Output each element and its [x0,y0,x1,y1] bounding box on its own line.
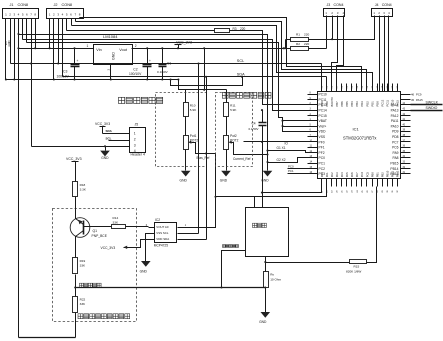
svg-text:PD9: PD9 [392,130,399,134]
svg-text:PD3: PD3 [360,101,364,107]
svg-text:J5: J5 [135,123,139,127]
svg-text:PB10: PB10 [385,170,389,177]
svg-text:PF1: PF1 [319,146,325,150]
svg-text:PC10: PC10 [319,93,327,97]
svg-text:CON8: CON8 [62,3,73,7]
svg-text:VOUT A0: VOUT A0 [156,225,169,229]
svg-text:PNP_BCE: PNP_BCE [92,234,108,238]
svg-text:SDA: SDA [106,129,113,133]
svg-text:PD8: PD8 [392,135,399,139]
svg-text:J2: J2 [54,3,58,7]
svg-text:Q1: Q1 [93,229,98,233]
svg-text:Vref+: Vref+ [319,124,327,128]
svg-text:5.9K: 5.9K [190,108,197,112]
svg-text:PC9: PC9 [416,93,422,97]
svg-text:CON4: CON4 [334,3,344,7]
svg-text:3: 3 [134,144,136,148]
svg-text:33K: 33K [113,220,119,224]
svg-text:PA9: PA9 [393,151,399,155]
svg-text:PC10: PC10 [391,99,395,106]
svg-text:J1: J1 [10,3,14,7]
svg-text:2: 2 [135,44,137,48]
svg-text:PA10: PA10 [391,124,399,128]
svg-text:PA4: PA4 [340,172,344,177]
svg-text:VSS: VSS [319,135,326,139]
svg-text:SWDIO: SWDIO [426,106,438,110]
svg-text:GND: GND [101,156,109,160]
svg-text:100/10V: 100/10V [57,74,70,78]
svg-text:+: + [77,59,79,63]
svg-text:PC5: PC5 [365,172,369,178]
svg-text:GND: GND [140,270,148,274]
svg-text:SCL: SCL [106,137,112,141]
svg-text:PC15: PC15 [319,114,327,118]
svg-text:C3: C3 [63,69,67,73]
svg-text:PA15: PA15 [416,98,423,102]
svg-text:Header 4: Header 4 [131,152,145,156]
svg-text:J3: J3 [327,3,331,7]
svg-text:PB9: PB9 [320,101,324,107]
svg-text:GND: GND [111,52,115,60]
svg-text:PB6: PB6 [340,101,344,107]
svg-text:R2: R2 [296,42,300,46]
svg-text:PC1: PC1 [288,169,294,173]
svg-text:Rs: Rs [270,273,274,277]
svg-text:45: 45 [411,98,415,102]
svg-text:PA15: PA15 [396,100,400,107]
svg-text:R18: R18 [80,183,86,187]
svg-text:VB: VB [4,41,8,45]
svg-text:G2 X2: G2 X2 [277,158,286,162]
svg-text:C1: C1 [167,61,171,65]
svg-text:PD2: PD2 [365,101,369,107]
svg-text:R3: R3 [233,27,237,31]
svg-text:33K: 33K [80,302,86,306]
svg-text:SCL: SCL [237,59,244,63]
svg-text:PC0: PC0 [319,156,326,160]
svg-text:820K 1/8W: 820K 1/8W [346,270,361,274]
svg-text:IC1: IC1 [353,127,360,132]
svg-text:10 Ohm: 10 Ohm [270,278,281,282]
svg-text:PA1: PA1 [325,172,329,177]
svg-text:VCC_3V3: VCC_3V3 [101,246,116,250]
svg-text:C2: C2 [133,68,137,72]
svg-text:Pot2: Pot2 [230,134,237,138]
svg-text:PC4: PC4 [360,172,364,178]
svg-text:46: 46 [411,93,415,97]
svg-text:PC7: PC7 [392,140,399,144]
svg-text:PA6: PA6 [350,172,354,177]
svg-text:PB2: PB2 [380,172,384,178]
svg-text:G1 X1: G1 X1 [277,146,286,150]
svg-text:33K: 33K [80,264,86,268]
svg-text:R15: R15 [354,265,360,269]
svg-text:+: + [149,59,151,63]
svg-text:PC1: PC1 [319,162,326,166]
svg-text:PB15: PB15 [390,162,398,166]
svg-text:STM32G071RBTx: STM32G071RBTx [343,136,376,141]
svg-text:PA0: PA0 [320,172,324,177]
svg-text:BOOT0: BOOT0 [330,97,334,107]
svg-text:VDD SDA: VDD SDA [156,237,169,241]
svg-text:100/10V: 100/10V [129,72,142,76]
svg-text:PA12: PA12 [391,114,399,118]
svg-text:PC12: PC12 [380,99,384,106]
svg-text:CON8: CON8 [18,3,29,7]
svg-text:220: 220 [304,42,309,46]
svg-text:C4: C4 [252,122,256,126]
svg-text:PC0: PC0 [288,164,294,168]
svg-text:IC2: IC2 [155,218,160,222]
svg-text:220: 220 [304,33,309,37]
svg-text:SDA: SDA [237,72,245,76]
svg-text:PA5: PA5 [345,172,349,177]
svg-text:PB5: PB5 [345,101,349,107]
svg-text:2: 2 [134,138,136,142]
svg-text:GND: GND [220,178,228,182]
svg-text:CON4: CON4 [382,3,392,7]
svg-text:VCC_3V3: VCC_3V3 [95,122,110,126]
svg-text:1: 1 [134,132,136,136]
svg-text:PF2: PF2 [319,151,325,155]
svg-text:Pot1: Pot1 [190,134,197,138]
svg-text:VCC_3V3: VCC_3V3 [176,40,192,44]
svg-text:MCP4725: MCP4725 [154,244,168,248]
svg-text:PD1: PD1 [370,101,374,107]
svg-text:R10: R10 [190,103,196,107]
svg-text:PB7: PB7 [335,101,339,107]
svg-text:PB0: PB0 [370,172,374,178]
svg-text:IO: IO [285,142,289,146]
svg-text:GND: GND [180,178,188,182]
svg-text:PB1: PB1 [375,172,379,178]
svg-text:Vin: Vin [96,48,101,52]
svg-text:PD0: PD0 [375,101,379,107]
svg-text:3.3K: 3.3K [80,187,87,191]
svg-text:PA8: PA8 [393,156,399,160]
svg-text:VSS SCL: VSS SCL [156,231,169,235]
svg-text:VBAT: VBAT [319,119,327,123]
svg-text:PA3: PA3 [335,172,339,177]
svg-text:VDD: VDD [319,130,327,134]
svg-text:0.1/50V: 0.1/50V [249,127,259,131]
svg-text:PB8: PB8 [325,101,329,107]
svg-text:PC11: PC11 [385,99,389,106]
svg-text:PA13: PA13 [391,109,399,113]
svg-text:R22: R22 [80,298,86,302]
svg-text:PB4: PB4 [350,101,354,107]
svg-text:R11: R11 [230,103,236,107]
svg-text:R19: R19 [80,259,86,263]
svg-text:SWCLK: SWCLK [426,101,439,105]
svg-text:Vout: Vout [119,48,128,52]
svg-text:PC6: PC6 [392,146,399,150]
svg-text:5.9K: 5.9K [230,108,237,112]
svg-text:GND: GND [259,320,267,324]
svg-text:J4: J4 [375,3,379,7]
svg-text:GND: GND [7,40,11,46]
svg-text:VCC_3V3: VCC_3V3 [66,157,82,161]
svg-text:PC11: PC11 [319,98,327,102]
svg-text:PA2: PA2 [330,172,334,177]
svg-text:LM1084: LM1084 [103,34,118,39]
svg-text:PF0: PF0 [319,140,325,144]
svg-text:PC14: PC14 [319,109,327,113]
svg-text:220: 220 [240,27,246,31]
svg-text:PB14: PB14 [390,167,398,171]
svg-text:0.1/50V: 0.1/50V [157,70,169,74]
svg-text:PA11: PA11 [391,119,399,123]
svg-text:PB3: PB3 [355,101,359,107]
svg-text:PC2: PC2 [319,167,326,171]
svg-text:1: 1 [87,44,89,48]
svg-text:Current_Ref: Current_Ref [233,157,250,161]
svg-text:PA7: PA7 [355,172,359,177]
svg-text:R1: R1 [296,33,300,37]
svg-text:PB12: PB12 [396,170,400,177]
svg-text:PB11: PB11 [391,170,395,177]
